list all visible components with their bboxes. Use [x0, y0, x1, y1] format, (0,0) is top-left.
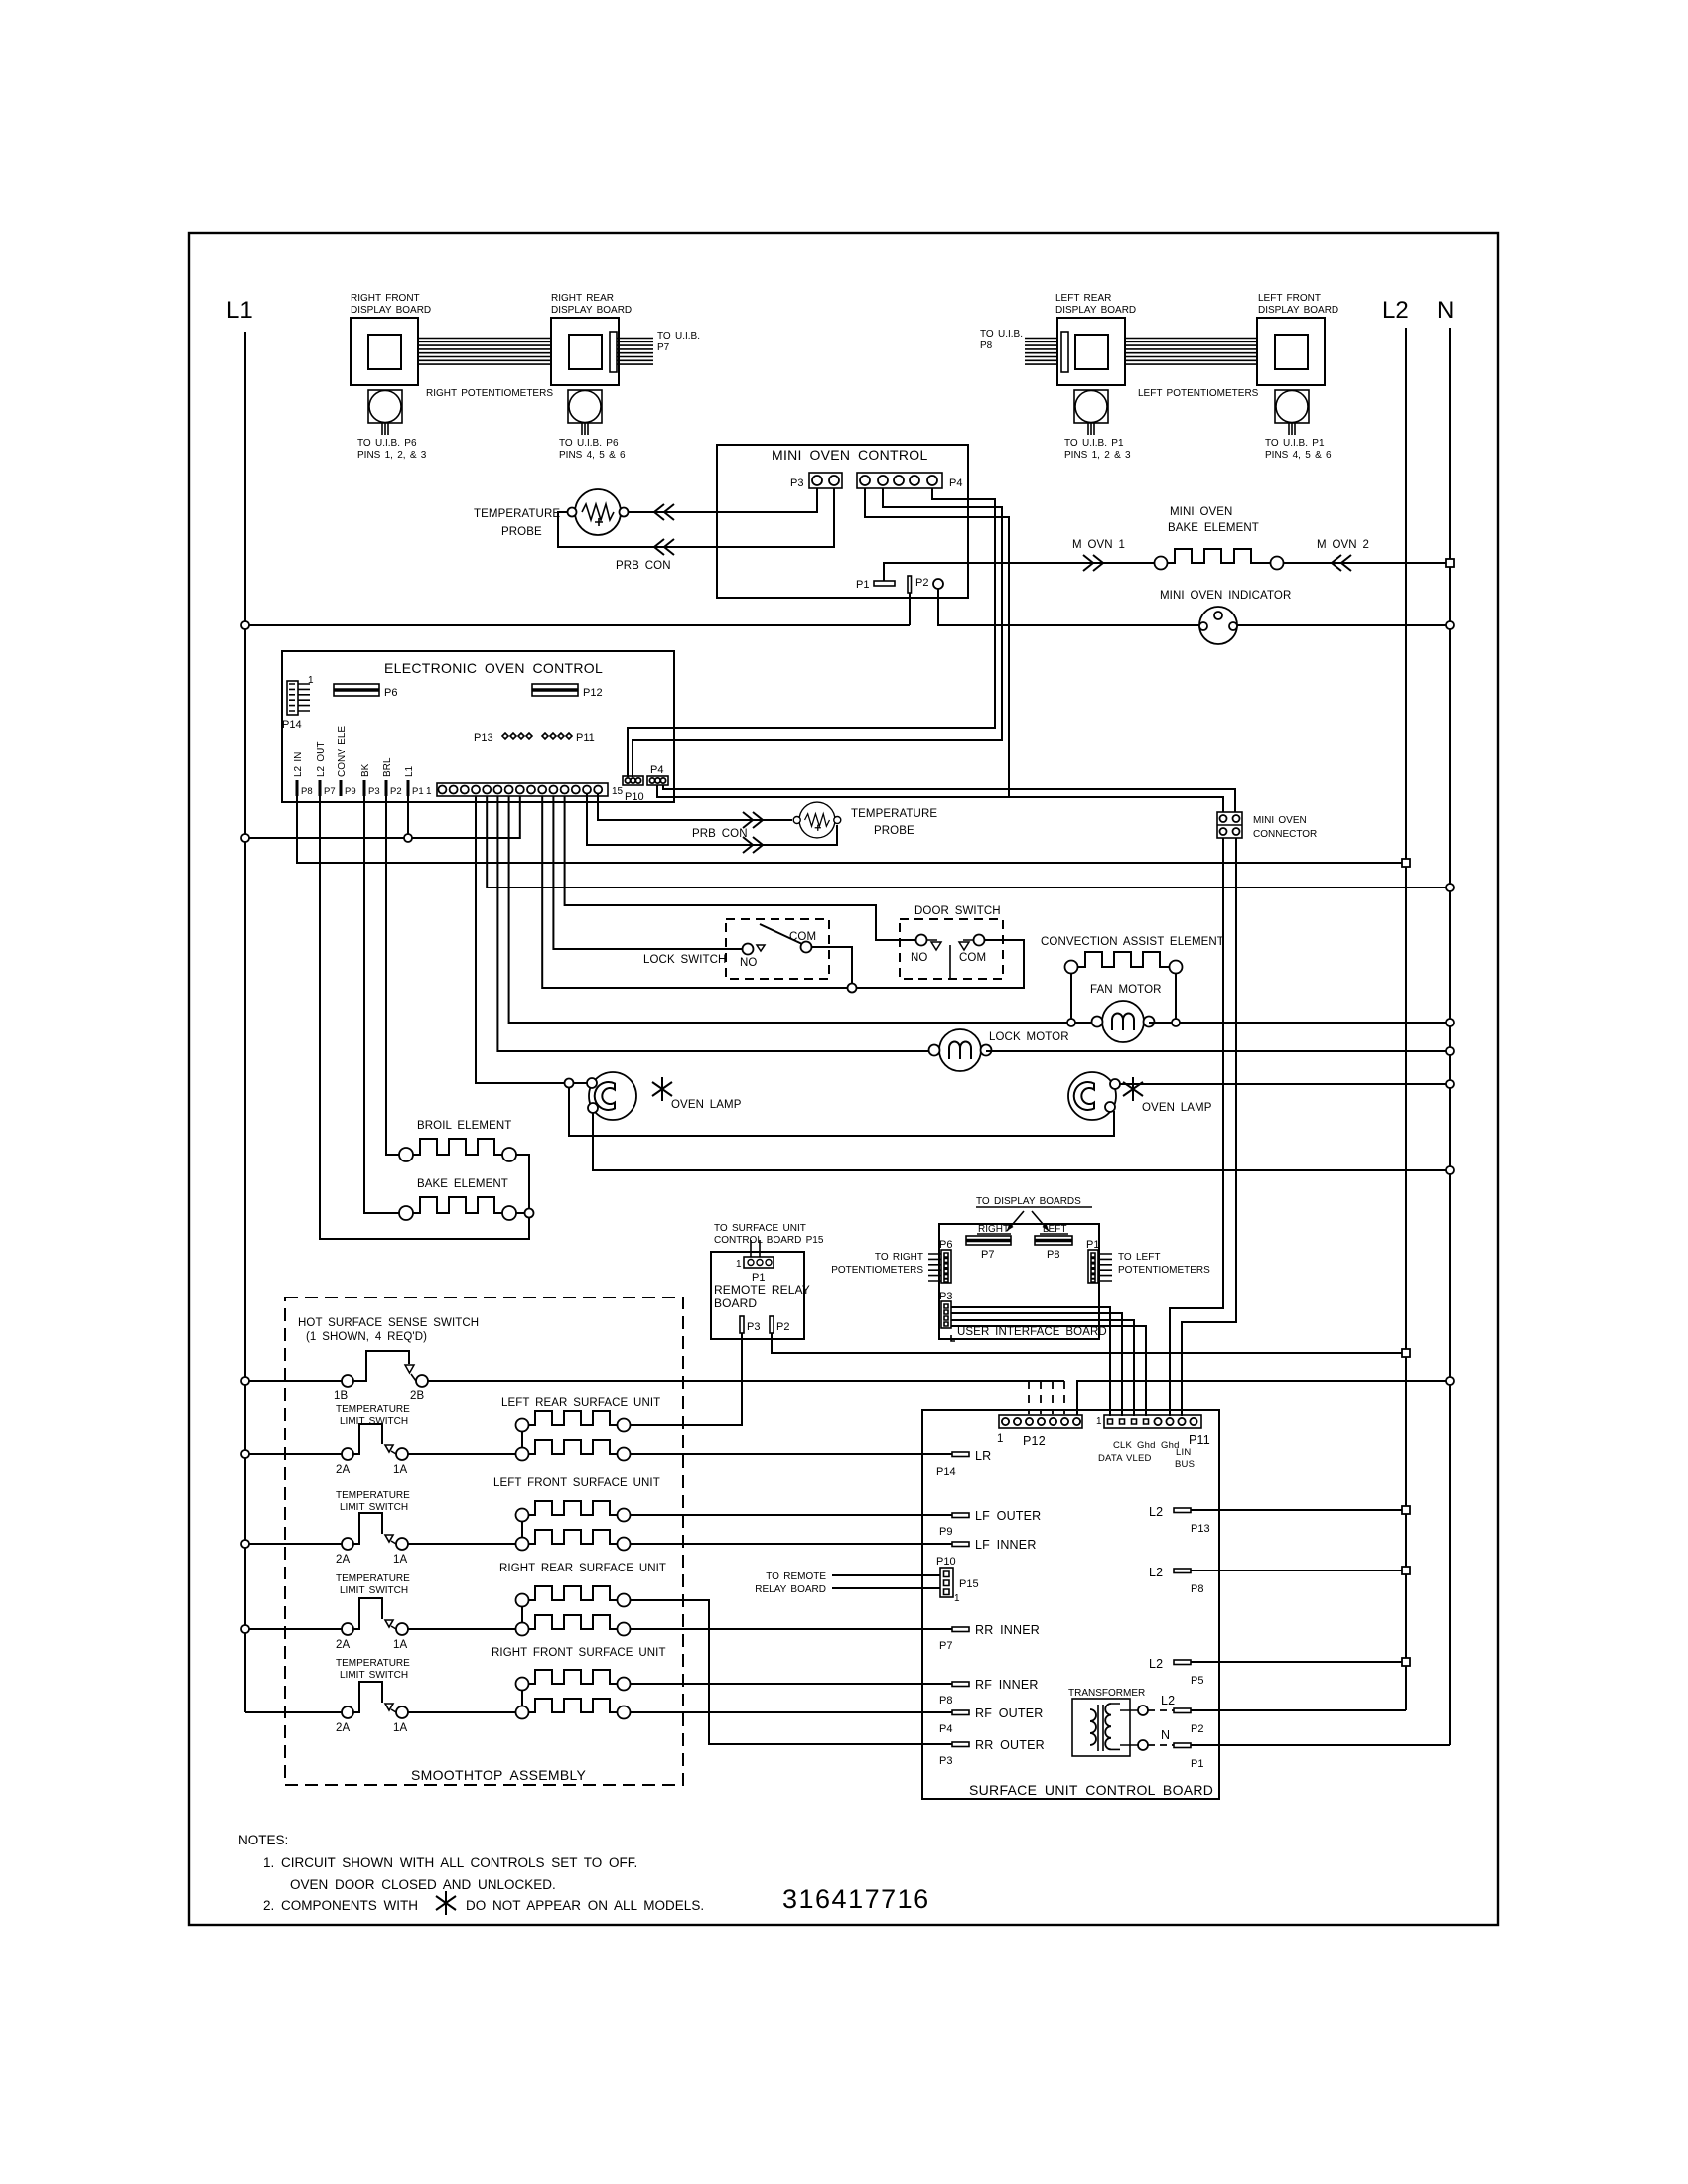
- wire UIB P3 pin2 to SUCB P11: [951, 1313, 1122, 1416]
- node COM junction: [848, 984, 857, 993]
- svg-text:LOCK SWITCH: LOCK SWITCH: [643, 954, 726, 966]
- svg-text:LF OUTER: LF OUTER: [975, 1509, 1041, 1523]
- wire RR outer element to SUCB P3: [631, 1600, 953, 1744]
- wire dashed drops to SUCB P12: [1029, 1381, 1064, 1414]
- svg-text:NOTES:: NOTES:: [238, 1833, 288, 1847]
- wire SUCB P12 pin7 to N rail: [1077, 1381, 1450, 1415]
- connector P4 (mini oven control): [857, 473, 942, 488]
- svg-text:DISPLAY BOARD: DISPLAY BOARD: [1258, 305, 1338, 316]
- connector P3 (mini oven control): [809, 473, 842, 488]
- pin P2 (RRB): [770, 1316, 774, 1333]
- svg-text:P3: P3: [747, 1321, 760, 1333]
- pin strip 1-15: [437, 783, 608, 796]
- wire RRB P1 stubs up: [751, 1240, 760, 1257]
- svg-text:P9: P9: [939, 1526, 952, 1538]
- svg-text:P8: P8: [301, 786, 313, 797]
- wire 1A to element: [408, 1628, 516, 1630]
- wire N rail: [1449, 328, 1451, 1745]
- svg-text:MINI OVEN INDICATOR: MINI OVEN INDICATOR: [1160, 590, 1291, 602]
- wire pin10 to COM node: [542, 796, 852, 988]
- electronic oven control board U1: [282, 651, 674, 802]
- svg-text:Ghd: Ghd: [1137, 1440, 1156, 1451]
- svg-text:L2: L2: [1382, 297, 1409, 324]
- svg-text:PINS 4, 5 & 6: PINS 4, 5 & 6: [1265, 450, 1332, 461]
- svg-text:1A: 1A: [393, 1639, 407, 1651]
- left front potentiometer: [1275, 390, 1309, 435]
- node on N rail y630: [1446, 621, 1454, 629]
- mini oven indicator lamp: [1199, 607, 1237, 644]
- wire probe to mini P3 pin 1: [628, 488, 817, 512]
- wire L1 rail: [244, 332, 246, 1712]
- wire P2 to L2 rail corner: [1191, 1709, 1406, 1711]
- svg-text:P8: P8: [1191, 1583, 1203, 1595]
- svg-text:TO SURFACE UNIT: TO SURFACE UNIT: [714, 1223, 806, 1234]
- pin P3 (RRB): [740, 1316, 744, 1333]
- svg-text:RIGHT FRONT: RIGHT FRONT: [351, 293, 420, 304]
- svg-text:RIGHT REAR SURFACE UNIT: RIGHT REAR SURFACE UNIT: [499, 1563, 666, 1574]
- svg-text:P1: P1: [1086, 1239, 1099, 1251]
- connector bar right rear board: [610, 332, 617, 372]
- wire indicator to N: [1237, 624, 1450, 626]
- svg-text:POTENTIOMETERS: POTENTIOMETERS: [1118, 1265, 1210, 1276]
- svg-text:2A: 2A: [336, 1464, 350, 1476]
- user interface board U3: [939, 1224, 1099, 1339]
- connector P12 bar: [532, 684, 578, 696]
- svg-text:TEMPERATURE: TEMPERATURE: [336, 1404, 410, 1415]
- svg-text:P4: P4: [949, 478, 962, 489]
- border frame: [189, 233, 1498, 1925]
- svg-text:PINS 4, 5 & 6: PINS 4, 5 & 6: [559, 450, 626, 461]
- svg-text:OVEN DOOR CLOSED AND UNLOCKED.: OVEN DOOR CLOSED AND UNLOCKED.: [290, 1877, 556, 1892]
- wire ribbon RR board to UIB P7: [617, 339, 653, 365]
- wire UIB P3 pin1 to SUCB P11: [951, 1307, 1110, 1416]
- svg-text:RF OUTER: RF OUTER: [975, 1706, 1044, 1720]
- svg-text:LEFT FRONT SURFACE UNIT: LEFT FRONT SURFACE UNIT: [493, 1477, 660, 1489]
- mini oven control board U2: [717, 445, 968, 598]
- svg-text:P6: P6: [384, 687, 397, 699]
- wire lock switch COM to node: [812, 947, 853, 984]
- svg-text:P2: P2: [776, 1321, 789, 1333]
- smoothtop assembly dashed enclosure: [285, 1297, 683, 1785]
- svg-text:PROBE: PROBE: [501, 526, 542, 538]
- svg-text:L2 IN: L2 IN: [293, 752, 304, 777]
- svg-text:2B: 2B: [410, 1390, 424, 1402]
- node bake/broil common: [525, 1209, 534, 1218]
- svg-text:P7: P7: [324, 786, 336, 797]
- svg-text:TEMPERATURE: TEMPERATURE: [336, 1658, 410, 1669]
- svg-text:TO U.I.B.: TO U.I.B.: [657, 331, 700, 341]
- svg-text:LIMIT SWITCH: LIMIT SWITCH: [340, 1670, 408, 1681]
- left rear display board: [1057, 318, 1125, 385]
- svg-text:P3: P3: [939, 1291, 952, 1302]
- svg-text:POTENTIOMETERS: POTENTIOMETERS: [831, 1265, 923, 1276]
- svg-text:RR INNER: RR INNER: [975, 1623, 1040, 1637]
- wire left lamp bottom to N: [593, 1113, 1450, 1170]
- surface unit control board U5: [922, 1410, 1219, 1799]
- svg-text:P8: P8: [980, 341, 993, 351]
- convection assist element R1: [1065, 961, 1078, 974]
- node on N rail y1059: [1446, 1047, 1454, 1055]
- svg-text:P4: P4: [650, 764, 663, 776]
- wire 1A to element: [408, 1543, 516, 1545]
- connector P11 label with pads: [542, 733, 572, 739]
- svg-text:OVEN LAMP: OVEN LAMP: [1142, 1102, 1212, 1114]
- wire fan motor to N: [1149, 1022, 1450, 1024]
- connector P10: [623, 776, 643, 785]
- svg-text:P7: P7: [939, 1640, 952, 1652]
- wire lamp junction to right lamp bottom: [569, 1087, 1114, 1136]
- svg-text:TEMPERATURE: TEMPERATURE: [336, 1573, 410, 1584]
- wire 1A to element: [408, 1453, 516, 1455]
- svg-text:PROBE: PROBE: [874, 825, 914, 837]
- node on N rail y1179: [1446, 1166, 1454, 1174]
- svg-text:CONTROL BOARD P15: CONTROL BOARD P15: [714, 1235, 824, 1246]
- svg-text:P13: P13: [1191, 1523, 1210, 1535]
- wire element legs to fan row: [1071, 974, 1176, 1024]
- svg-text:LIMIT SWITCH: LIMIT SWITCH: [340, 1502, 408, 1513]
- connector chevron PRB lower: [654, 539, 674, 555]
- node junctions on y844: [241, 834, 249, 842]
- svg-text:LF INNER: LF INNER: [975, 1538, 1037, 1552]
- svg-text:BAKE ELEMENT: BAKE ELEMENT: [1168, 522, 1259, 534]
- svg-text:L2 OUT: L2 OUT: [316, 741, 327, 777]
- node on N rail y1092: [1446, 1080, 1454, 1088]
- wire L2 IN terminal to L2 rail: [297, 796, 1406, 863]
- svg-text:P14: P14: [282, 719, 302, 731]
- wire PRB CON lower (pin14 to probe2): [587, 794, 837, 845]
- terminal RR INNER / P7: [952, 1627, 969, 1632]
- svg-text:BROIL ELEMENT: BROIL ELEMENT: [417, 1120, 511, 1132]
- svg-text:P3: P3: [790, 478, 803, 489]
- wire RF inner element to SUCB P8: [631, 1683, 953, 1685]
- svg-text:1: 1: [736, 1259, 742, 1270]
- connector P15 (SUCB): [940, 1568, 953, 1597]
- svg-text:LIN: LIN: [1176, 1447, 1191, 1458]
- mini oven bake element: [1155, 557, 1168, 570]
- node on N rail y894: [1446, 884, 1454, 891]
- svg-text:BOARD: BOARD: [714, 1297, 757, 1310]
- svg-text:2A: 2A: [336, 1554, 350, 1566]
- svg-text:P13: P13: [474, 732, 493, 744]
- svg-text:P3: P3: [368, 786, 380, 797]
- svg-text:USER INTERFACE BOARD: USER INTERFACE BOARD: [957, 1326, 1107, 1338]
- wire mini oven connector pin4 to SUCB P11: [1182, 838, 1236, 1416]
- connector chevron M OVN 2: [1332, 555, 1351, 571]
- svg-text:CONNECTOR: CONNECTOR: [1253, 829, 1317, 840]
- right front display board: [351, 318, 418, 385]
- wire P15 stubs: [832, 1575, 940, 1588]
- svg-text:P6: P6: [939, 1239, 952, 1251]
- wire RRB P3 to left rear surface unit: [631, 1333, 742, 1425]
- svg-text:P12: P12: [1023, 1434, 1046, 1448]
- svg-text:PRB CON: PRB CON: [692, 828, 748, 840]
- wire ribbon RF to RR board: [418, 339, 551, 365]
- svg-text:RR OUTER: RR OUTER: [975, 1738, 1045, 1752]
- svg-text:FAN MOTOR: FAN MOTOR: [1090, 984, 1162, 996]
- svg-text:1. CIRCUIT SHOWN WITH ALL CO: 1. CIRCUIT SHOWN WITH ALL CONTROLS SET T…: [263, 1855, 637, 1870]
- svg-text:DOOR SWITCH: DOOR SWITCH: [914, 905, 1001, 917]
- svg-text:TO REMOTE: TO REMOTE: [766, 1571, 826, 1582]
- svg-text:P8: P8: [1047, 1249, 1059, 1261]
- wire BK terminal to bake element: [364, 796, 399, 1213]
- svg-text:1A: 1A: [393, 1464, 407, 1476]
- svg-text:TEMPERATURE: TEMPERATURE: [474, 508, 560, 520]
- svg-text:P10: P10: [936, 1556, 956, 1568]
- svg-text:RIGHT FRONT SURFACE UNIT: RIGHT FRONT SURFACE UNIT: [492, 1647, 666, 1659]
- oven lamp DS2 (right): [1068, 1072, 1116, 1120]
- oven lamp DS1 (left): [589, 1072, 636, 1120]
- svg-text:L2: L2: [1149, 1566, 1163, 1579]
- svg-text:1A: 1A: [393, 1722, 407, 1734]
- wire mini P4 pin1 down-right: [865, 488, 1009, 797]
- svg-text:SMOOTHTOP ASSEMBLY: SMOOTHTOP ASSEMBLY: [411, 1767, 587, 1783]
- wire 1A to element: [408, 1711, 516, 1713]
- svg-text:TO U.I.B. P6: TO U.I.B. P6: [559, 438, 619, 449]
- svg-text:TO U.I.B. P1: TO U.I.B. P1: [1064, 438, 1124, 449]
- svg-text:VLED: VLED: [1126, 1453, 1152, 1464]
- svg-text:PINS 1, 2, & 3: PINS 1, 2, & 3: [357, 450, 427, 461]
- svg-text:CLK: CLK: [1113, 1440, 1133, 1451]
- wire pin4 / oven lamp row y1091: [476, 796, 588, 1083]
- wire LF inner element to SUCB P10: [631, 1543, 953, 1545]
- svg-text:LIMIT SWITCH: LIMIT SWITCH: [340, 1585, 408, 1596]
- wire EOC P4 to mini oven connector pin2: [663, 785, 1235, 812]
- terminal LF INNER / P10: [952, 1542, 969, 1547]
- svg-text:P2: P2: [915, 577, 928, 589]
- temperature probe (main oven): [793, 802, 841, 838]
- wire LR element to SUCB P14: [631, 1453, 953, 1455]
- svg-text:P5: P5: [1191, 1675, 1203, 1687]
- svg-text:MINI OVEN: MINI OVEN: [1253, 815, 1307, 826]
- mini oven connector J1: [1217, 812, 1242, 838]
- terminal RF INNER / P8: [952, 1682, 969, 1687]
- terminal pin bars P8 P7 P9 P3 P2 P1: [297, 780, 408, 796]
- svg-text:P4: P4: [939, 1723, 952, 1735]
- right rear display board: [551, 318, 619, 385]
- wire mini oven pin to indicator row: [938, 589, 1199, 625]
- terminal RF OUTER / P4: [952, 1710, 969, 1715]
- wire pin7 / fan motor row y1030: [509, 796, 1097, 1023]
- svg-text:LEFT REAR: LEFT REAR: [1055, 293, 1111, 304]
- connector P14: [287, 681, 298, 715]
- svg-text:PINS 1, 2 & 3: PINS 1, 2 & 3: [1064, 450, 1131, 461]
- left rear potentiometer: [1074, 390, 1108, 435]
- svg-text:ELECTRONIC OVEN CONTROL: ELECTRONIC OVEN CONTROL: [384, 660, 603, 676]
- svg-text:TO DISPLAY BOARDS: TO DISPLAY BOARDS: [976, 1196, 1081, 1207]
- wire probe to mini P3 pin 2: [558, 488, 834, 547]
- wire L1 to 2A: [245, 1453, 342, 1455]
- svg-text:TO U.I.B. P1: TO U.I.B. P1: [1265, 438, 1325, 449]
- svg-text:1: 1: [308, 675, 314, 686]
- wire ribbon to UIB P8: [1025, 339, 1057, 365]
- wire pin6 / lock motor row y1059: [497, 796, 928, 1051]
- svg-text:1: 1: [426, 786, 432, 797]
- svg-text:OVEN LAMP: OVEN LAMP: [671, 1099, 742, 1111]
- svg-text:M OVN 2: M OVN 2: [1317, 539, 1369, 551]
- svg-text:MINI OVEN: MINI OVEN: [1170, 506, 1232, 518]
- right front potentiometer: [368, 390, 402, 435]
- wire 2B to P12 drops: [428, 1380, 1064, 1382]
- svg-text:HOT SURFACE SENSE SWITCH: HOT SURFACE SENSE SWITCH: [298, 1317, 479, 1329]
- svg-text:MINI OVEN CONTROL: MINI OVEN CONTROL: [772, 447, 928, 463]
- svg-text:LEFT POTENTIOMETERS: LEFT POTENTIOMETERS: [1138, 388, 1259, 399]
- svg-text:P11: P11: [576, 732, 595, 744]
- wire element to N: [1284, 562, 1450, 564]
- wire UIB P3 pin3 to SUCB P11: [951, 1320, 1134, 1416]
- svg-text:P9: P9: [345, 786, 356, 797]
- wire BRL terminal to broil element: [386, 796, 399, 1155]
- pin P1 (mini oven control): [874, 581, 895, 586]
- svg-text:L2: L2: [1149, 1505, 1163, 1519]
- svg-text:DISPLAY BOARD: DISPLAY BOARD: [551, 305, 632, 316]
- svg-text:BRL: BRL: [382, 757, 393, 777]
- svg-text:P12: P12: [583, 687, 603, 699]
- svg-text:DATA: DATA: [1098, 1453, 1123, 1464]
- left front display board: [1257, 318, 1325, 385]
- svg-text:N: N: [1437, 297, 1454, 324]
- wire EOC L1 terminal stub: [407, 796, 409, 838]
- wire P13 to L2 rail: [1191, 1509, 1406, 1511]
- svg-text:P7: P7: [657, 342, 670, 353]
- svg-text:NO: NO: [740, 957, 757, 969]
- wire L1 to 2A: [245, 1543, 342, 1545]
- wire L1 row y844 to EOC L1 terminal and pin8: [245, 796, 520, 838]
- wire ribbon LR to LF board: [1125, 339, 1257, 365]
- svg-text:DO NOT APPEAR ON ALL MODELS.: DO NOT APPEAR ON ALL MODELS.: [466, 1898, 704, 1913]
- wire mini oven connector pin3 to SUCB P11: [1170, 838, 1223, 1416]
- svg-text:BUS: BUS: [1175, 1459, 1195, 1470]
- wire right lamp top to N: [1120, 1083, 1450, 1085]
- svg-text:P1: P1: [412, 786, 424, 797]
- terminal LR / P14: [952, 1452, 969, 1457]
- pin P2 (mini oven control): [908, 576, 912, 593]
- svg-text:BAKE ELEMENT: BAKE ELEMENT: [417, 1178, 508, 1190]
- svg-text:M OVN 1: M OVN 1: [1072, 539, 1125, 551]
- svg-text:TEMPERATURE: TEMPERATURE: [336, 1490, 410, 1501]
- connector P11 (SUCB): [1104, 1415, 1201, 1428]
- node junctions element/fan: [1067, 1019, 1075, 1026]
- svg-text:REMOTE RELAY: REMOTE RELAY: [714, 1283, 810, 1297]
- connector P12 (SUCB): [999, 1415, 1082, 1428]
- svg-text:TEMPERATURE: TEMPERATURE: [851, 808, 937, 820]
- svg-text:2A: 2A: [336, 1639, 350, 1651]
- svg-text:1: 1: [954, 1593, 960, 1604]
- svg-text:L2: L2: [1149, 1657, 1163, 1671]
- svg-text:P3: P3: [939, 1755, 952, 1767]
- arrows to display boards: [1007, 1211, 1049, 1231]
- svg-text:1A: 1A: [393, 1554, 407, 1566]
- svg-text:P11: P11: [1189, 1433, 1210, 1447]
- node on L2 rail y1363: [1402, 1349, 1410, 1357]
- svg-text:RIGHT REAR: RIGHT REAR: [551, 293, 614, 304]
- svg-text:COM: COM: [959, 952, 986, 964]
- svg-text:TO LEFT: TO LEFT: [1118, 1252, 1160, 1263]
- svg-text:316417716: 316417716: [782, 1884, 930, 1914]
- wire element common loop to L2 OUT: [320, 796, 529, 1239]
- lock switch S1: [726, 919, 829, 979]
- node on N rail y1391: [1446, 1377, 1454, 1385]
- svg-text:P1: P1: [856, 579, 869, 591]
- wire L1 to 2A: [245, 1628, 342, 1630]
- svg-text:RIGHT POTENTIOMETERS: RIGHT POTENTIOMETERS: [426, 388, 553, 399]
- svg-text:P14: P14: [936, 1466, 956, 1478]
- wire EOC P4 to mini oven connector pin1: [657, 785, 1223, 812]
- svg-text:(1 SHOWN, 4 REQ'D): (1 SHOWN, 4 REQ'D): [306, 1331, 427, 1343]
- pin name labels P11: [1098, 1440, 1195, 1470]
- connector P4 (EOC): [647, 776, 668, 785]
- svg-text:CONV ELE: CONV ELE: [337, 726, 348, 777]
- svg-text:NO: NO: [911, 952, 927, 964]
- svg-text:P2: P2: [390, 786, 402, 797]
- connector chevron: [743, 812, 763, 828]
- wire mini P4 pin2 to EOC P10 pin2: [633, 488, 1002, 777]
- svg-text:P8: P8: [939, 1695, 952, 1706]
- node L1 at y630: [241, 621, 249, 629]
- wire pin5 to N rail y894: [487, 796, 1450, 887]
- svg-text:1B: 1B: [334, 1390, 348, 1402]
- wire L2 rail: [1405, 328, 1407, 1710]
- svg-text:LOCK MOTOR: LOCK MOTOR: [989, 1031, 1069, 1043]
- node on N rail y567: [1446, 559, 1454, 567]
- wire L1 to mini oven P2: [245, 593, 910, 625]
- svg-text:2. COMPONENTS WITH: 2. COMPONENTS WITH: [263, 1898, 418, 1913]
- svg-text:CONVECTION ASSIST ELEMENT: CONVECTION ASSIST ELEMENT: [1041, 936, 1224, 948]
- connector chevron PRB upper: [654, 504, 674, 520]
- wire door switch COM to node: [856, 940, 1024, 988]
- svg-text:LR: LR: [975, 1449, 991, 1463]
- wire RF outer element to SUCB P4: [631, 1711, 953, 1713]
- svg-text:L1: L1: [226, 297, 253, 324]
- temperature probe (mini oven): [568, 489, 629, 535]
- svg-text:DISPLAY BOARD: DISPLAY BOARD: [1055, 305, 1136, 316]
- door switch S2: [900, 919, 1003, 979]
- svg-text:LIMIT SWITCH: LIMIT SWITCH: [340, 1416, 408, 1427]
- svg-text:P7: P7: [981, 1249, 994, 1261]
- svg-text:DISPLAY BOARD: DISPLAY BOARD: [351, 305, 431, 316]
- fan motor M1: [1092, 1001, 1155, 1042]
- wire L1 to 1B: [245, 1380, 342, 1382]
- svg-text:P10: P10: [625, 791, 644, 803]
- svg-text:LEFT REAR SURFACE UNIT: LEFT REAR SURFACE UNIT: [501, 1397, 660, 1409]
- pin circle next to P2: [933, 579, 943, 589]
- node on N rail y1030: [1446, 1019, 1454, 1026]
- svg-text:RF INNER: RF INNER: [975, 1678, 1039, 1692]
- svg-text:15: 15: [612, 786, 624, 797]
- svg-text:1: 1: [1096, 1416, 1102, 1427]
- wire pin12 to door switch NO: [565, 796, 915, 940]
- wire mini P4 pin5 to EOC P10 pin1: [628, 488, 995, 777]
- wire M OVN 1 from P1: [884, 563, 1154, 581]
- svg-text:L1: L1: [404, 765, 415, 777]
- svg-text:TO U.I.B. P6: TO U.I.B. P6: [357, 438, 417, 449]
- wire RRB P2 to L2 rail: [772, 1333, 1406, 1353]
- connector P6 bar: [334, 684, 379, 696]
- svg-text:LEFT FRONT: LEFT FRONT: [1258, 293, 1321, 304]
- wire P1 to N rail corner: [1191, 1744, 1450, 1746]
- wire UIB P3 pin4 to SUCB P11: [951, 1326, 1146, 1416]
- wire pin11 to lock switch NO: [553, 796, 742, 949]
- remote relay board U4: [711, 1252, 804, 1339]
- svg-text:TO U.I.B.: TO U.I.B.: [980, 329, 1023, 340]
- svg-text:P15: P15: [959, 1578, 979, 1590]
- wire P8 to L2 rail: [1191, 1570, 1406, 1571]
- wire LF outer element to SUCB P9: [631, 1514, 953, 1516]
- right rear potentiometer: [568, 390, 602, 435]
- svg-text:P1: P1: [1191, 1758, 1203, 1770]
- svg-text:PRB CON: PRB CON: [616, 560, 671, 572]
- connector bar left rear board: [1061, 332, 1068, 372]
- lock motor M2: [929, 1029, 992, 1071]
